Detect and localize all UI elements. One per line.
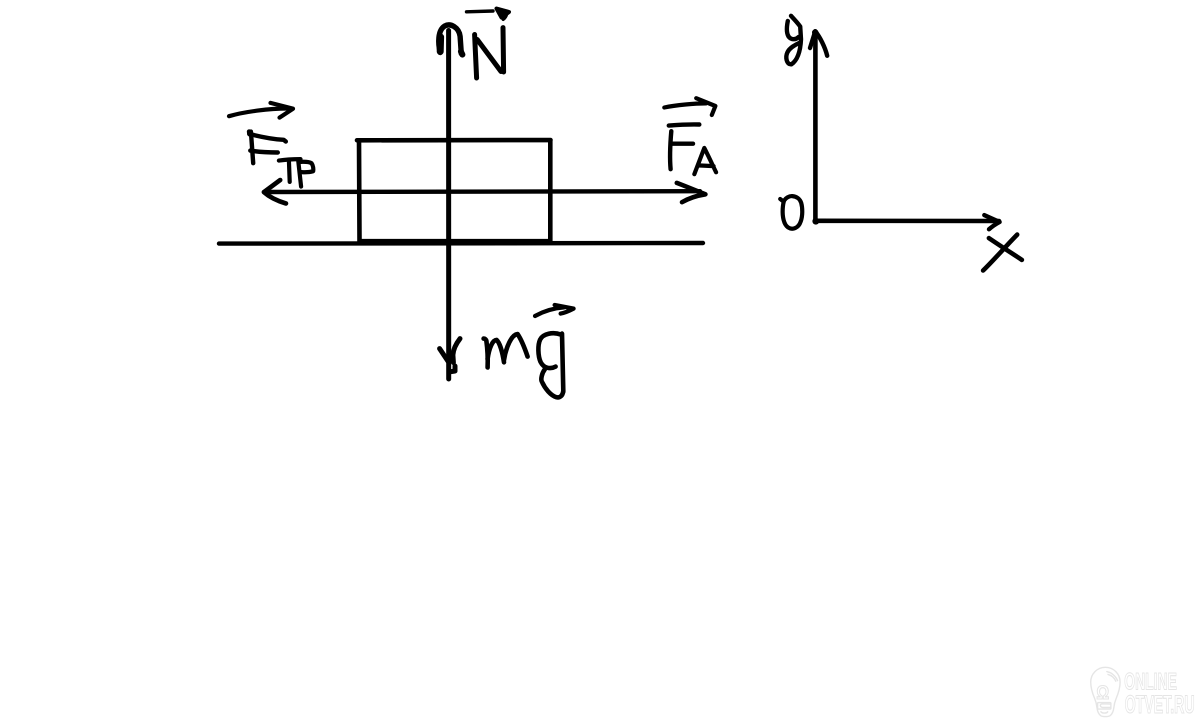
label x: [983, 235, 1017, 271]
left arrowhead (friction): [264, 180, 286, 204]
vector bar over g: [535, 307, 564, 316]
label F (friction): [247, 132, 252, 135]
svg-text:OTVET.RU: OTVET.RU: [1125, 691, 1195, 719]
label F (applied): [669, 124, 700, 125]
right arrowhead (applied force): [677, 183, 706, 202]
y axis line: [813, 32, 818, 221]
vector bar over F_A: [664, 103, 706, 107]
force axis vertical line (N up / mg down): [446, 31, 451, 380]
N arrowhead hook at top: [439, 25, 462, 54]
label subscript tr (Cyrillic): [279, 159, 301, 161]
label y (Cyrillic u): [787, 21, 799, 39]
vector bar over N: [467, 9, 494, 13]
y axis arrowhead: [810, 31, 827, 56]
svg-text:Ω: Ω: [1096, 682, 1109, 704]
label mg: [484, 339, 488, 368]
horizontal force line (friction left / applied right): [264, 189, 700, 194]
x axis arrowhead: [984, 215, 999, 229]
label N: [475, 35, 477, 79]
label 0 (origin): [780, 199, 783, 201]
watermark: lightbulb logo: [1091, 667, 1120, 716]
label subscript A: [694, 148, 716, 174]
watermark: ONLINE OTVET.RU text: [1124, 669, 1194, 719]
x axis line: [815, 219, 999, 224]
mg arrowhead at bottom: [440, 349, 449, 362]
vector bar over F_tr: [229, 109, 287, 117]
ground surface line: [219, 241, 703, 246]
block (box on surface): [357, 140, 551, 241]
